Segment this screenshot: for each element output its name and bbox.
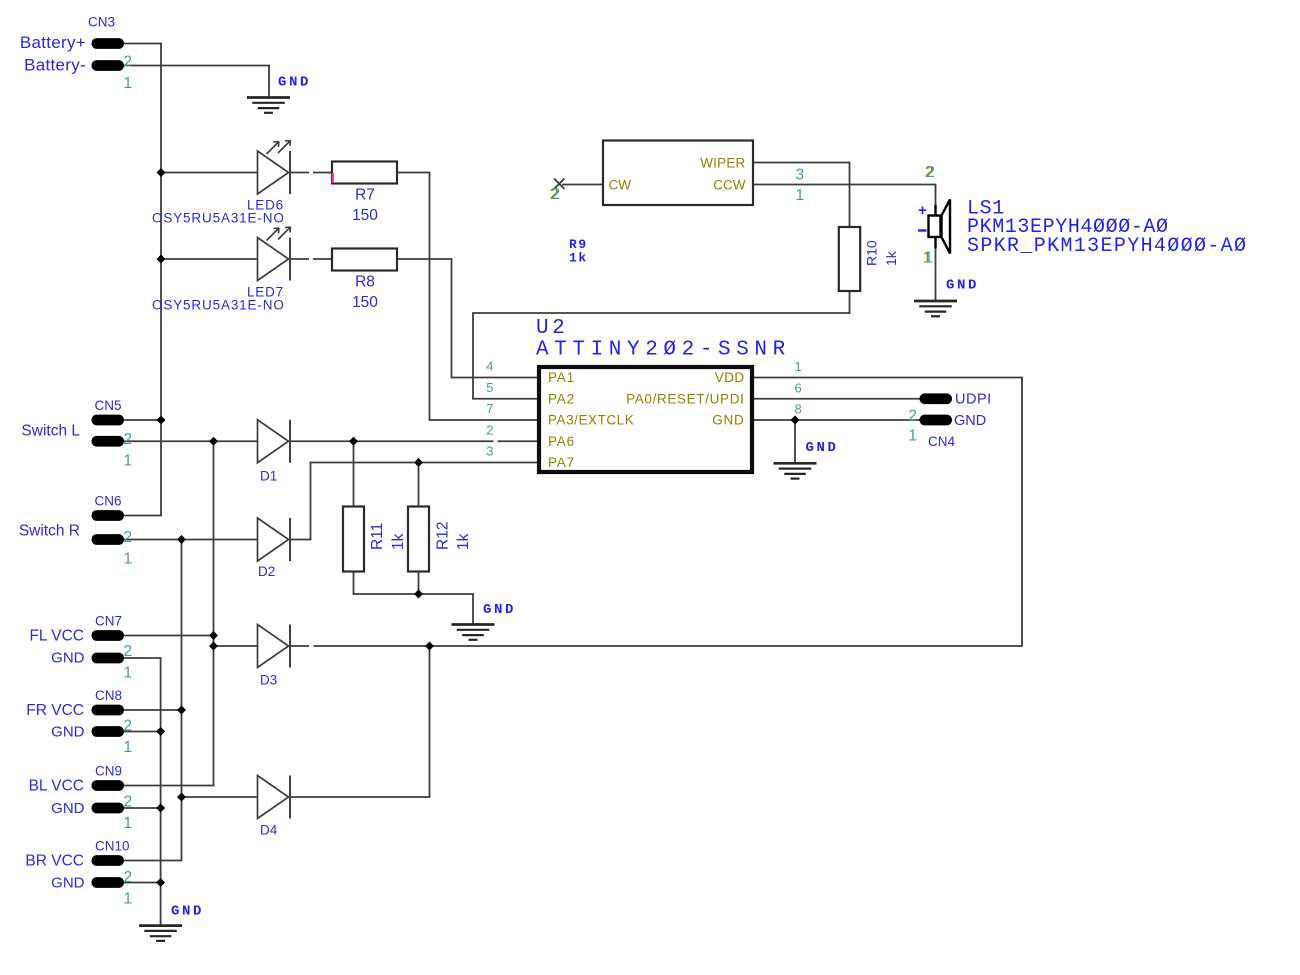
svg-text:CN6: CN6 [95,494,122,509]
svg-text:5: 5 [486,380,493,395]
svg-text:CN4: CN4 [928,434,955,449]
svg-text:GND: GND [712,413,744,428]
svg-text:2: 2 [926,164,935,181]
svg-text:2: 2 [124,718,133,735]
svg-text:GND: GND [171,904,204,920]
svg-text:Battery-: Battery- [24,56,86,75]
svg-text:2: 2 [124,869,133,886]
svg-text:8: 8 [795,402,802,417]
svg-text:150: 150 [352,207,378,224]
svg-text:1: 1 [908,428,917,445]
svg-text:1: 1 [924,250,933,267]
svg-text:CN8: CN8 [95,688,122,703]
svg-text:GND: GND [483,602,516,618]
svg-text:1: 1 [124,551,133,568]
svg-text:+: + [918,203,927,220]
svg-text:PA3/EXTCLK: PA3/EXTCLK [548,413,634,428]
svg-text:VDD: VDD [715,370,745,385]
svg-text:CCW: CCW [713,178,745,193]
svg-text:2: 2 [551,186,560,203]
svg-text:1: 1 [796,187,805,204]
svg-text:GND: GND [954,413,986,429]
svg-text:1k: 1k [883,250,899,266]
svg-text:SPKR_PKM13EPYH4ØØØ-AØ: SPKR_PKM13EPYH4ØØØ-AØ [967,235,1247,258]
svg-text:CN7: CN7 [95,614,122,629]
svg-text:1: 1 [124,665,133,682]
svg-text:1: 1 [795,359,802,374]
svg-text:1: 1 [124,891,133,908]
svg-text:PA2: PA2 [548,391,575,406]
svg-text:WIPER: WIPER [700,156,745,171]
svg-text:D1: D1 [260,469,277,484]
svg-text:OSY5RU5A31E-NO: OSY5RU5A31E-NO [152,298,285,313]
svg-text:Switch R: Switch R [19,523,80,540]
svg-text:GND: GND [51,650,85,667]
svg-text:D3: D3 [260,673,277,688]
svg-text:CN3: CN3 [88,15,115,30]
svg-text:CN9: CN9 [95,764,122,779]
svg-text:R12: R12 [435,522,452,550]
svg-text:CN10: CN10 [95,839,130,854]
svg-text:PA6: PA6 [548,434,575,449]
svg-text:FL VCC: FL VCC [29,628,84,645]
svg-text:4: 4 [486,359,493,374]
svg-text:3: 3 [486,444,493,459]
svg-text:PA7: PA7 [548,455,575,470]
svg-text:Battery+: Battery+ [20,33,86,52]
svg-text:2: 2 [124,529,133,546]
svg-text:Switch L: Switch L [21,423,80,440]
svg-text:1: 1 [124,75,133,92]
svg-text:PA0/RESET/UPDI: PA0/RESET/UPDI [626,391,744,406]
svg-text:2: 2 [124,54,133,71]
svg-text:1: 1 [124,815,133,832]
svg-text:2: 2 [486,422,493,437]
svg-text:GND: GND [806,440,839,456]
svg-text:CN5: CN5 [95,398,122,413]
svg-text:2: 2 [124,643,133,660]
svg-text:R11: R11 [369,523,386,550]
svg-text:1k: 1k [390,533,407,550]
svg-text:6: 6 [795,380,802,395]
svg-text:1k: 1k [455,533,472,550]
svg-text:150: 150 [352,294,378,311]
svg-text:D4: D4 [260,823,278,838]
svg-text:R10: R10 [864,240,880,266]
svg-text:CW: CW [609,178,632,193]
svg-text:R8: R8 [355,274,375,291]
svg-text:1: 1 [124,453,133,470]
svg-text:ATTINY2Ø2-SSNR: ATTINY2Ø2-SSNR [536,339,791,362]
svg-text:GND: GND [51,724,85,741]
svg-text:1k: 1k [569,251,588,266]
svg-text:2: 2 [908,408,917,425]
svg-text:OSY5RU5A31E-NO: OSY5RU5A31E-NO [152,211,285,226]
svg-text:GND: GND [946,278,979,294]
svg-text:PA1: PA1 [548,370,575,385]
svg-text:BR VCC: BR VCC [25,853,84,870]
svg-text:7: 7 [486,401,493,416]
svg-text:UDPI: UDPI [955,392,992,408]
svg-text:3: 3 [796,167,805,184]
svg-text:R7: R7 [355,187,375,204]
svg-text:2: 2 [124,431,133,448]
svg-text:2: 2 [124,794,133,811]
svg-text:U2: U2 [536,317,568,340]
svg-text:D2: D2 [258,564,275,579]
svg-text:GND: GND [51,875,85,892]
svg-text:GND: GND [51,800,85,817]
svg-text:GND: GND [278,75,311,91]
svg-text:FR VCC: FR VCC [26,702,84,719]
svg-text:1: 1 [124,739,133,756]
svg-text:BL VCC: BL VCC [29,778,84,795]
